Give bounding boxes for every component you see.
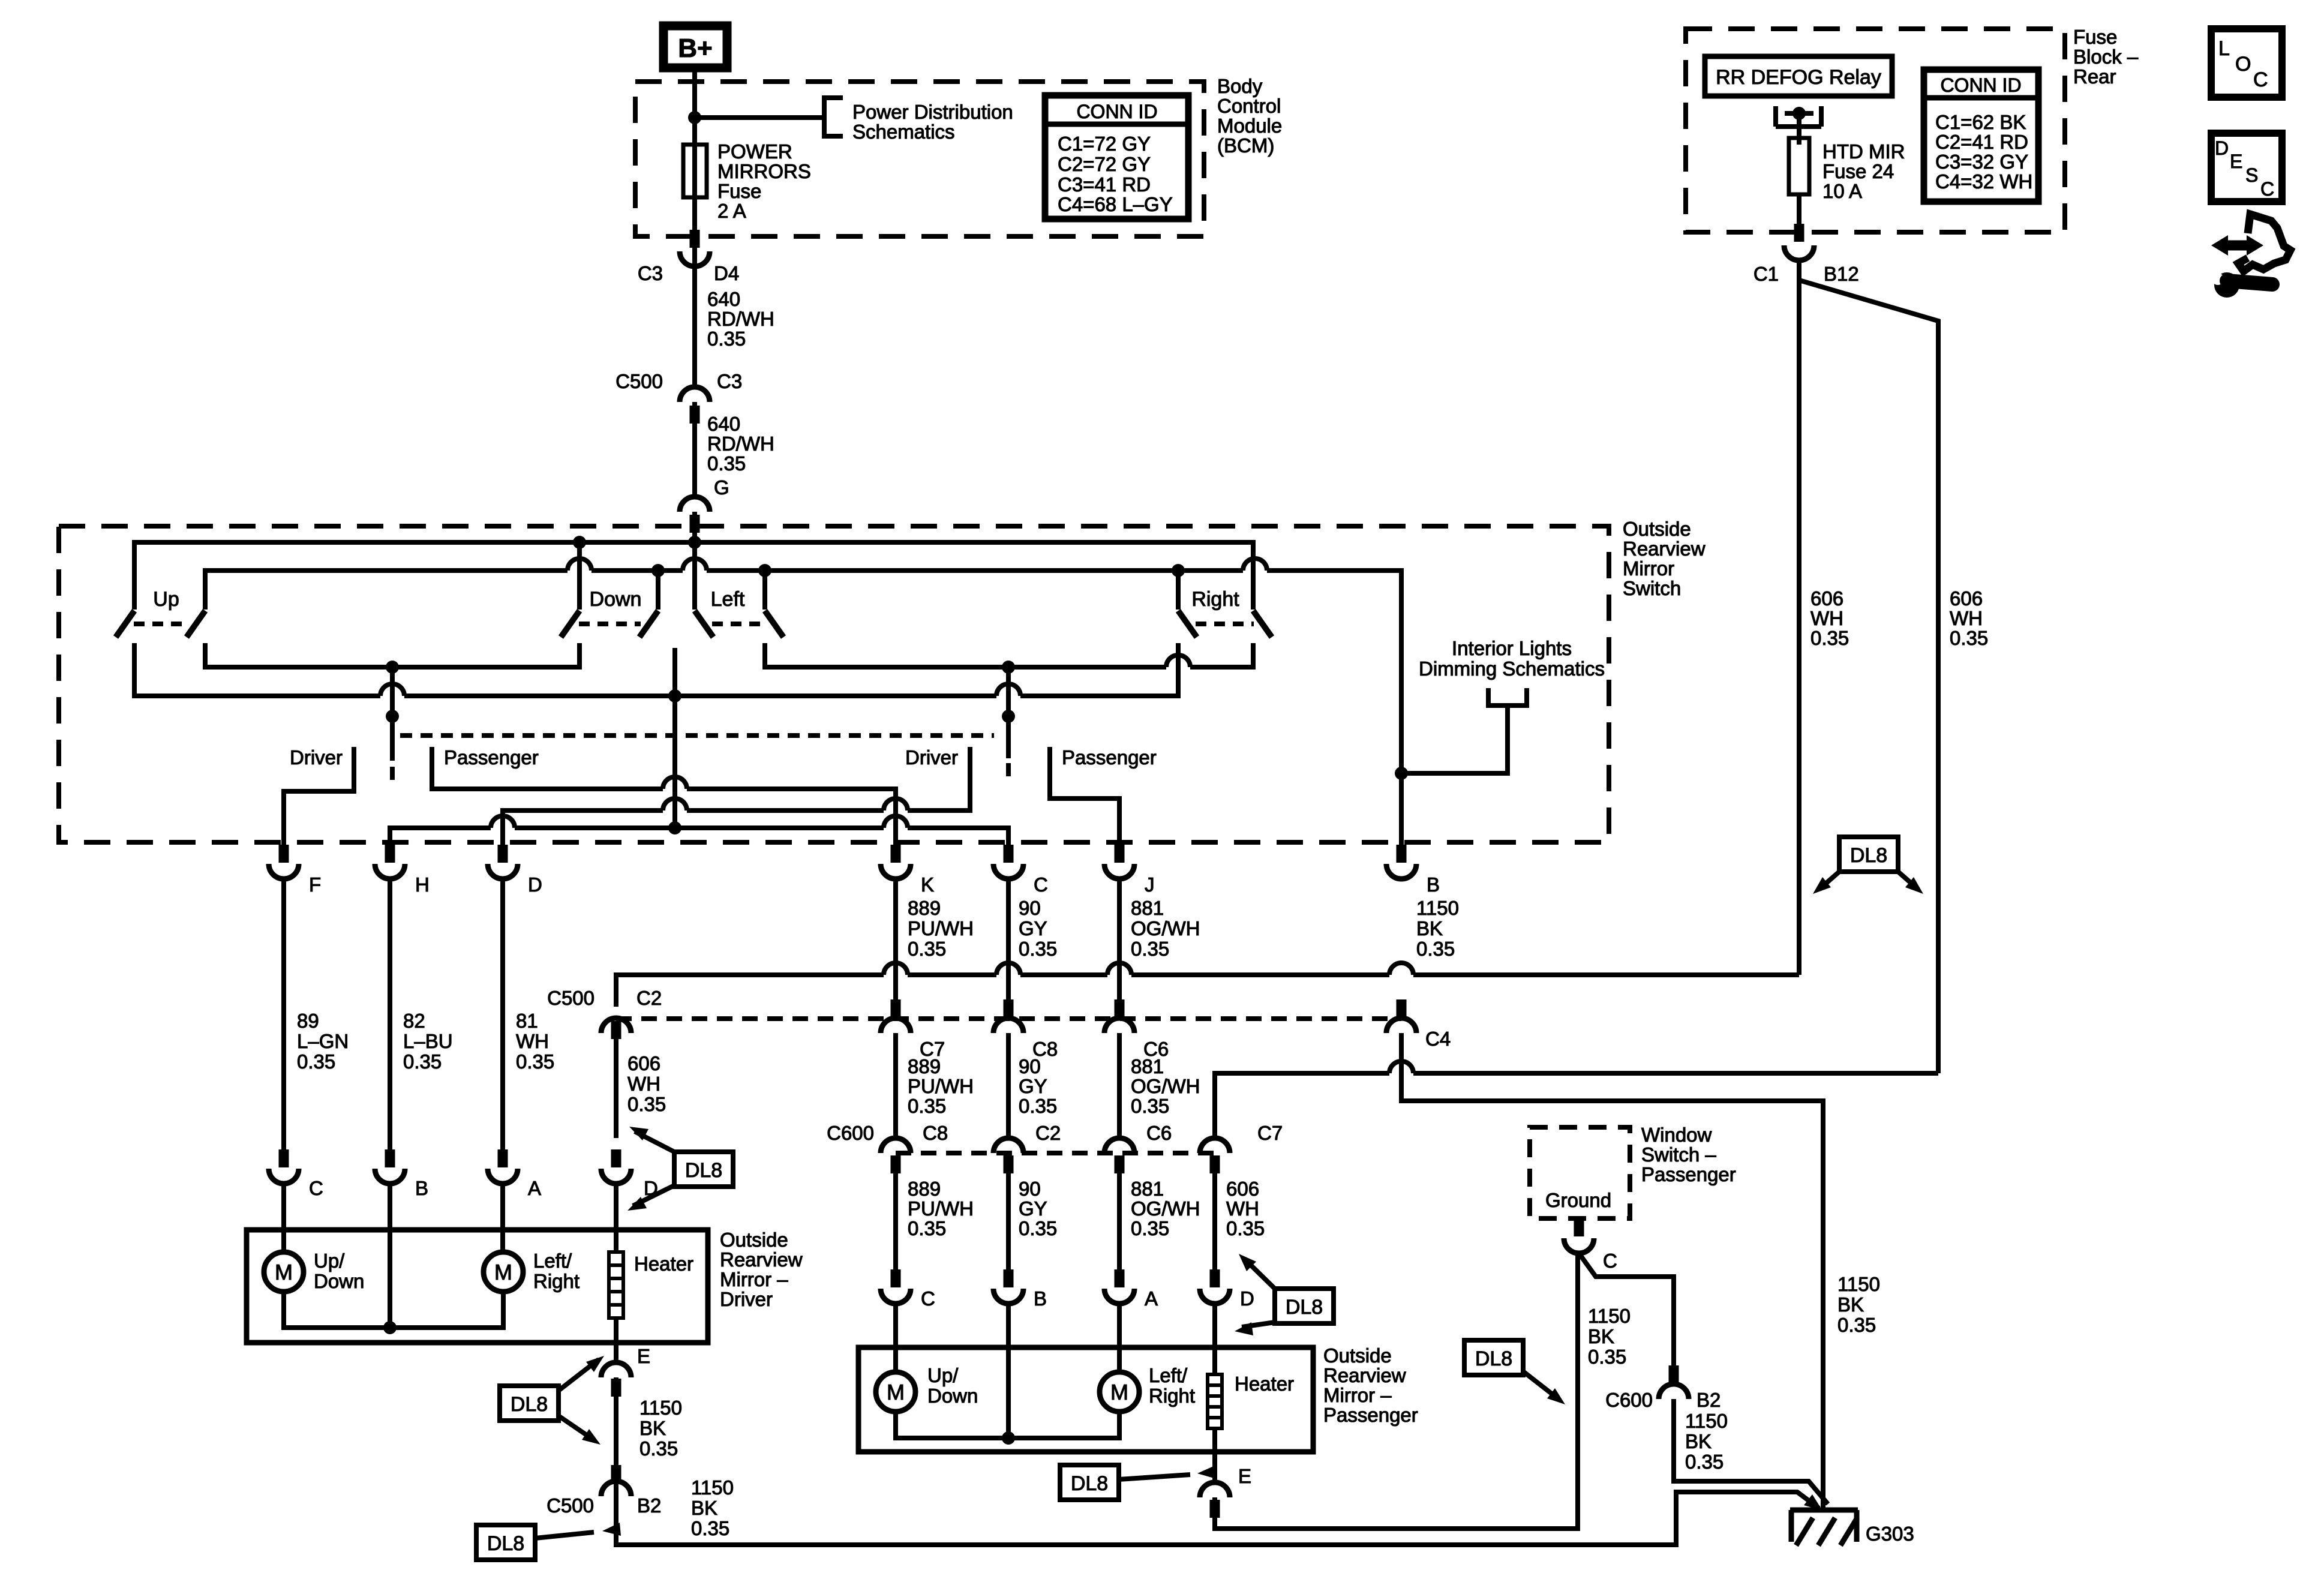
icon LOC box bbox=[2211, 29, 2282, 97]
svg-text:1150: 1150 bbox=[1685, 1410, 1728, 1432]
svg-text:1150: 1150 bbox=[1837, 1273, 1880, 1295]
svg-text:K: K bbox=[921, 873, 934, 896]
wire to passenger mirror connector x=1493 bbox=[893, 1155, 898, 1287]
bus A supply rail bbox=[134, 542, 1253, 610]
svg-text:0.35: 0.35 bbox=[908, 1217, 946, 1239]
svg-text:881: 881 bbox=[1131, 1055, 1164, 1077]
wire 606 WH below C500 bbox=[614, 1033, 618, 1138]
svg-text:O: O bbox=[2235, 53, 2251, 76]
svg-text:0.35: 0.35 bbox=[1019, 1095, 1057, 1117]
arrowhead upper bbox=[1239, 1254, 1256, 1271]
bus B return rail to pin B bbox=[205, 571, 1401, 861]
svg-text:Driver: Driver bbox=[720, 1288, 773, 1310]
node supply joins bus A bbox=[688, 536, 701, 549]
svg-text:DL8: DL8 bbox=[685, 1159, 722, 1182]
bracket relay pin socket bbox=[1776, 106, 1821, 127]
node line4 tap down bbox=[668, 689, 681, 703]
svg-text:B2: B2 bbox=[637, 1494, 661, 1517]
node bus B to Down switch bbox=[651, 564, 665, 577]
svg-text:10 A: 10 A bbox=[1822, 180, 1862, 202]
svg-text:0.35: 0.35 bbox=[1588, 1346, 1626, 1368]
svg-text:Block –: Block – bbox=[2073, 46, 2139, 68]
connector C600 cavity B2 bbox=[1659, 1384, 1689, 1399]
svg-text:Fuse: Fuse bbox=[717, 180, 761, 202]
connector C600 cavity bbox=[993, 1138, 1023, 1153]
svg-text:Left/: Left/ bbox=[1149, 1364, 1188, 1386]
svg-text:C3: C3 bbox=[717, 370, 742, 392]
svg-text:Control: Control bbox=[1217, 95, 1281, 117]
svg-text:0.35: 0.35 bbox=[1810, 627, 1849, 649]
svg-text:B+: B+ bbox=[678, 34, 712, 63]
node B wire to interior lights dimming bbox=[1395, 767, 1408, 780]
motor M up/down (passenger) bbox=[876, 1372, 915, 1412]
switch Up left blade bbox=[116, 611, 134, 637]
node junction to power distribution bbox=[688, 111, 701, 124]
svg-text:0.35: 0.35 bbox=[639, 1437, 678, 1460]
connector pin C male tick bbox=[1004, 845, 1014, 863]
svg-text:D4: D4 bbox=[714, 262, 739, 284]
svg-text:M: M bbox=[1110, 1380, 1128, 1404]
connector pin C3 male tick bbox=[690, 230, 700, 248]
svg-text:Down: Down bbox=[314, 1270, 364, 1292]
svg-text:C1=72 GY: C1=72 GY bbox=[1058, 133, 1151, 155]
svg-text:C3=32 GY: C3=32 GY bbox=[1935, 151, 2028, 173]
wire to C500 x=1866 bbox=[1117, 879, 1122, 1017]
svg-text:HTD MIR: HTD MIR bbox=[1822, 140, 1905, 163]
svg-text:Rearview: Rearview bbox=[1323, 1364, 1406, 1386]
wire Down switch left contact bbox=[577, 542, 582, 610]
connector C600 cavity bbox=[881, 1138, 911, 1153]
wire to driver mirror connector x=650 bbox=[388, 879, 392, 1151]
switch Down coupling dash bbox=[579, 622, 641, 626]
svg-text:Heater: Heater bbox=[1235, 1373, 1294, 1395]
connector C1/B12 bbox=[1784, 245, 1814, 260]
C500 C3 male tick bbox=[690, 406, 700, 424]
svg-text:Mirror –: Mirror – bbox=[1323, 1384, 1392, 1406]
svg-text:C: C bbox=[921, 1287, 935, 1310]
connector C500 cavity B2 (ground) bbox=[601, 1481, 631, 1496]
hop line4 over left pole bbox=[380, 684, 404, 696]
connector pin F male tick bbox=[279, 845, 289, 863]
component Outside Rearview Mirror Driver box bbox=[247, 1230, 708, 1343]
arrowhead to 606 wire lower bbox=[627, 1197, 647, 1211]
Fuse Block Rear dashed box bbox=[1686, 29, 2065, 232]
svg-text:640: 640 bbox=[707, 288, 740, 310]
wire line3b Left-right to Right-right legs bbox=[765, 643, 1253, 667]
connector C3/D4 bbox=[680, 251, 710, 266]
DL8 splice callout (passenger E) bbox=[1060, 1465, 1119, 1500]
connector pin F bbox=[269, 864, 299, 879]
svg-text:C7: C7 bbox=[1257, 1122, 1283, 1144]
svg-text:C: C bbox=[2253, 68, 2268, 91]
svg-text:B12: B12 bbox=[1824, 263, 1859, 285]
wire 1150 BK passenger ground to window switch bbox=[1215, 1254, 1578, 1529]
hop L3 over D wire bbox=[491, 816, 515, 828]
wire C500 to C600 x=1866 bbox=[1117, 1033, 1122, 1138]
svg-text:Module: Module bbox=[1217, 115, 1282, 137]
connector window switch pin C bbox=[1564, 1238, 1594, 1253]
node right selector pivot bbox=[1002, 710, 1015, 723]
svg-text:WH: WH bbox=[516, 1030, 549, 1052]
svg-text:Outside: Outside bbox=[1623, 518, 1691, 540]
svg-text:C3: C3 bbox=[638, 262, 663, 284]
svg-text:0.35: 0.35 bbox=[908, 938, 946, 960]
arrow line right bbox=[535, 1532, 594, 1538]
svg-text:WH: WH bbox=[1950, 607, 1983, 629]
svg-text:2 A: 2 A bbox=[717, 200, 746, 222]
arrowhead lower bbox=[1235, 1322, 1253, 1335]
svg-text:L–GN: L–GN bbox=[297, 1030, 349, 1052]
svg-text:Up/: Up/ bbox=[927, 1364, 959, 1386]
svg-text:1150: 1150 bbox=[1588, 1305, 1631, 1327]
arrow line down bbox=[1242, 1322, 1275, 1327]
wire pin B to common (pass) bbox=[1006, 1304, 1011, 1438]
connector pin J male tick bbox=[1115, 845, 1125, 863]
svg-text:606: 606 bbox=[1810, 587, 1843, 610]
wire Down switch right contact bbox=[656, 571, 660, 610]
svg-text:0.35: 0.35 bbox=[1837, 1314, 1876, 1336]
svg-text:Up/: Up/ bbox=[314, 1250, 345, 1272]
wire relay pin to fuse 24 bbox=[1797, 113, 1801, 145]
node L3 joins tap wire bbox=[668, 821, 681, 834]
connector C500 cavity C2 bbox=[601, 1018, 631, 1033]
svg-text:Down: Down bbox=[590, 588, 642, 611]
wire Passenger contact (left) line L1 to pin K bbox=[432, 747, 896, 861]
svg-text:889: 889 bbox=[908, 1055, 941, 1077]
svg-text:0.35: 0.35 bbox=[1131, 1217, 1169, 1239]
svg-text:Right: Right bbox=[533, 1270, 580, 1292]
svg-text:B2: B2 bbox=[1697, 1389, 1721, 1411]
switch Down left blade bbox=[561, 611, 580, 637]
arrow line bbox=[1523, 1371, 1559, 1399]
svg-text:RD/WH: RD/WH bbox=[707, 433, 774, 455]
arrow line up bbox=[559, 1359, 599, 1391]
C600 inline connector dashed line bbox=[896, 1151, 1215, 1155]
arrowhead left bbox=[1813, 877, 1831, 894]
svg-text:C2: C2 bbox=[636, 987, 662, 1009]
selector mechanical dashed link bbox=[400, 733, 994, 738]
svg-text:Passenger: Passenger bbox=[1323, 1404, 1418, 1426]
DL8 splice callout (C500 B2) bbox=[476, 1525, 535, 1560]
svg-text:Schematics: Schematics bbox=[852, 121, 955, 143]
connector pin G of mirror switch bbox=[680, 497, 710, 512]
Body Control Module dashed box bbox=[635, 82, 1204, 236]
svg-text:WH: WH bbox=[627, 1073, 660, 1095]
svg-text:D: D bbox=[1240, 1287, 1254, 1310]
wire to interior lights dimming schematics bbox=[1401, 706, 1508, 773]
svg-text:Body: Body bbox=[1217, 75, 1263, 97]
svg-text:Dimming Schematics: Dimming Schematics bbox=[1419, 658, 1605, 680]
connector driver mirror pin D bbox=[601, 1169, 631, 1184]
switch Right right blade bbox=[1253, 611, 1272, 637]
connector C500 cavity bbox=[881, 1018, 911, 1033]
arrow line up bbox=[1244, 1259, 1275, 1289]
svg-text:0.35: 0.35 bbox=[691, 1517, 729, 1539]
svg-text:C2=41 RD: C2=41 RD bbox=[1935, 131, 2028, 153]
arrowhead to 606 wire upper bbox=[629, 1127, 648, 1140]
arrow line to left 606 wire bbox=[1820, 872, 1839, 888]
svg-text:G303: G303 bbox=[1866, 1523, 1914, 1545]
svg-text:DL8: DL8 bbox=[1286, 1296, 1323, 1319]
hop bus B over bus A right drop bbox=[1243, 559, 1267, 571]
svg-text:90: 90 bbox=[1019, 1178, 1041, 1200]
wire to C500 x=1681 bbox=[1006, 879, 1011, 1017]
connector passenger mirror pin bbox=[993, 1289, 1023, 1304]
connector C500 cavity bbox=[1104, 1018, 1134, 1033]
svg-text:BK: BK bbox=[639, 1417, 666, 1439]
svg-text:D: D bbox=[2215, 137, 2229, 159]
svg-text:H: H bbox=[415, 873, 430, 896]
svg-text:Outside: Outside bbox=[1323, 1344, 1392, 1367]
switch Left right blade bbox=[765, 611, 783, 637]
node common bus junction (passenger) bbox=[1002, 1431, 1015, 1445]
hop over B wire bbox=[1389, 963, 1413, 975]
svg-text:0.35: 0.35 bbox=[707, 452, 746, 475]
svg-text:90: 90 bbox=[1019, 1055, 1041, 1077]
switch Right left blade bbox=[1178, 611, 1197, 637]
svg-text:C1: C1 bbox=[1753, 263, 1779, 285]
connector C600 cavity bbox=[1104, 1138, 1134, 1153]
connector passenger mirror pin D bbox=[1200, 1289, 1230, 1304]
wire to passenger mirror connector x=1866 bbox=[1117, 1155, 1122, 1287]
connector pin D male tick bbox=[498, 845, 508, 863]
switch Up coupling dash bbox=[134, 622, 188, 626]
svg-text:C: C bbox=[1603, 1250, 1617, 1272]
hop L3 over K wire bbox=[884, 816, 908, 828]
svg-text:0.35: 0.35 bbox=[908, 1095, 946, 1117]
svg-text:0.35: 0.35 bbox=[1226, 1217, 1265, 1239]
wire C500 to C600 x=1681 bbox=[1006, 1033, 1011, 1138]
svg-text:90: 90 bbox=[1019, 897, 1041, 919]
svg-text:PU/WH: PU/WH bbox=[908, 1197, 974, 1220]
hop line3b over Right left leg bbox=[1166, 655, 1190, 667]
motor M left/right (driver) bbox=[484, 1252, 523, 1292]
svg-text:606: 606 bbox=[1950, 587, 1983, 610]
svg-text:CONN ID: CONN ID bbox=[1940, 74, 2021, 96]
window switch ground pin tick bbox=[1574, 1218, 1584, 1236]
svg-text:BK: BK bbox=[1837, 1293, 1864, 1316]
svg-text:0.35: 0.35 bbox=[627, 1093, 666, 1115]
switch Left left blade bbox=[695, 611, 713, 637]
svg-text:Passenger: Passenger bbox=[444, 746, 539, 769]
connector pin C bbox=[993, 864, 1023, 879]
svg-text:82: 82 bbox=[403, 1010, 425, 1032]
wire pin C to up/down motor bbox=[281, 1184, 286, 1252]
ground G303 symbol bbox=[1790, 1510, 1858, 1542]
wire to passenger mirror connector x=1681 bbox=[1006, 1155, 1011, 1287]
node bus A to Down switch bbox=[573, 536, 586, 549]
wire 606 WH to C500 C2 bbox=[616, 975, 1799, 1007]
svg-text:Ground: Ground bbox=[1545, 1189, 1611, 1211]
svg-text:C500: C500 bbox=[547, 987, 594, 1009]
svg-text:Fuse: Fuse bbox=[2073, 26, 2117, 48]
svg-text:DL8: DL8 bbox=[1071, 1472, 1108, 1495]
icon DESC box bbox=[2211, 133, 2282, 202]
wire line4 Up-left to Right-left legs bbox=[134, 643, 1178, 696]
svg-text:Right: Right bbox=[1149, 1385, 1195, 1407]
wire 606 WH to heater top (pass) bbox=[1212, 1304, 1217, 1374]
svg-text:GY: GY bbox=[1019, 1075, 1047, 1097]
DL8 splice callout (driver heater) bbox=[674, 1152, 733, 1187]
wire to power distribution schematics bbox=[695, 115, 824, 120]
svg-text:Left: Left bbox=[711, 588, 745, 611]
connector driver mirror pin bbox=[269, 1169, 299, 1184]
node common bus junction (driver) bbox=[383, 1321, 397, 1334]
svg-text:E: E bbox=[2230, 151, 2242, 172]
svg-text:C4: C4 bbox=[1425, 1028, 1451, 1050]
connector pin H bbox=[375, 864, 405, 879]
svg-text:BK: BK bbox=[1685, 1430, 1712, 1452]
switch Right coupling dash bbox=[1196, 622, 1254, 626]
table CONN ID (fuse block) bbox=[1924, 70, 2038, 202]
wire relay pin crossbar bbox=[1785, 111, 1813, 116]
wire heater to pin E bbox=[614, 1318, 618, 1364]
svg-text:0.35: 0.35 bbox=[403, 1050, 442, 1073]
svg-text:Mirror –: Mirror – bbox=[720, 1268, 788, 1290]
svg-text:Passenger: Passenger bbox=[1062, 746, 1157, 769]
wire pin A to left/right motor (pass) bbox=[1117, 1304, 1122, 1372]
svg-text:C600: C600 bbox=[827, 1122, 874, 1144]
svg-text:Fuse 24: Fuse 24 bbox=[1822, 160, 1894, 182]
wire Left switch right contact bbox=[762, 571, 767, 610]
wire 1150 BK to G303 bbox=[1674, 1399, 1828, 1504]
svg-text:Rearview: Rearview bbox=[720, 1248, 803, 1271]
wire line3 Up-right to Down-left legs bbox=[205, 643, 580, 667]
wire left selector pole bbox=[390, 667, 395, 761]
svg-text:Right: Right bbox=[1191, 588, 1239, 611]
svg-text:CONN ID: CONN ID bbox=[1076, 101, 1157, 122]
wire 640 RD/WH lower segment bbox=[692, 402, 697, 497]
svg-text:Driver: Driver bbox=[905, 746, 958, 769]
svg-text:C2=72 GY: C2=72 GY bbox=[1058, 153, 1151, 175]
wire Left-switch lower leg tap to line L3 bbox=[672, 648, 677, 828]
connector pin B bbox=[1386, 864, 1416, 879]
svg-text:Interior Lights: Interior Lights bbox=[1452, 637, 1572, 659]
svg-text:POWER: POWER bbox=[717, 140, 792, 163]
connector passenger mirror pin bbox=[1104, 1289, 1134, 1304]
wire pin B to common bbox=[388, 1184, 392, 1328]
wire 606 WH to C600 C7 bbox=[1215, 1073, 1938, 1138]
svg-text:C4=32 WH: C4=32 WH bbox=[1935, 170, 2032, 193]
node left selector pivot bbox=[386, 710, 399, 723]
svg-text:DL8: DL8 bbox=[511, 1393, 548, 1416]
wire 606 WH left drop bbox=[1797, 260, 1801, 975]
wire 606 WH to heater top bbox=[614, 1184, 618, 1252]
svg-text:606: 606 bbox=[1226, 1178, 1259, 1200]
connector driver mirror pin bbox=[375, 1169, 405, 1184]
svg-text:81: 81 bbox=[516, 1010, 538, 1032]
svg-text:0.35: 0.35 bbox=[516, 1050, 554, 1073]
connector pin J bbox=[1104, 864, 1134, 879]
svg-text:E: E bbox=[637, 1345, 650, 1367]
bracket interior lights dimming reference bbox=[1488, 688, 1527, 706]
arrow line up bbox=[635, 1131, 674, 1152]
svg-text:C: C bbox=[2260, 178, 2274, 200]
wire supply into switch / Left switch left contact bbox=[692, 512, 697, 610]
svg-text:Passenger: Passenger bbox=[1641, 1163, 1736, 1185]
hop line4 over right pole bbox=[996, 684, 1020, 696]
svg-text:Driver: Driver bbox=[290, 746, 343, 769]
DL8 splice callout (driver ground) bbox=[500, 1386, 559, 1421]
svg-text:Outside: Outside bbox=[720, 1229, 788, 1251]
svg-text:0.35: 0.35 bbox=[297, 1050, 335, 1073]
connector C600 cavity C7 bbox=[1200, 1138, 1230, 1153]
svg-text:M: M bbox=[494, 1260, 512, 1284]
svg-text:606: 606 bbox=[627, 1052, 660, 1074]
svg-text:RR DEFOG Relay: RR DEFOG Relay bbox=[1716, 66, 1881, 89]
hop bus B over Down contact bbox=[568, 559, 591, 571]
wire 1150 BK from pin B to G303 bbox=[1401, 1033, 1823, 1511]
node bus B to Left switch bbox=[758, 564, 771, 577]
component Window Switch Passenger dashed box bbox=[1530, 1127, 1630, 1218]
svg-text:0.35: 0.35 bbox=[1950, 627, 1988, 649]
DL8 splice callout (window sw ground) bbox=[1464, 1340, 1523, 1375]
svg-text:1150: 1150 bbox=[639, 1397, 682, 1419]
hop over 1150 BK wire bbox=[1389, 1061, 1413, 1073]
motor M left/right (passenger) bbox=[1100, 1372, 1139, 1412]
svg-text:OG/WH: OG/WH bbox=[1131, 1075, 1200, 1097]
svg-text:DL8: DL8 bbox=[1475, 1347, 1512, 1370]
wire pin C to up/down motor (pass) bbox=[893, 1304, 898, 1372]
wire motor common bus (passenger) bbox=[896, 1412, 1119, 1438]
svg-text:Power Distribution: Power Distribution bbox=[852, 101, 1013, 123]
DL8 splice callout (606 wires) bbox=[1839, 837, 1898, 872]
svg-text:1150: 1150 bbox=[1416, 897, 1459, 919]
svg-text:C4=68 L–GY: C4=68 L–GY bbox=[1058, 193, 1173, 215]
svg-text:C600: C600 bbox=[1605, 1389, 1653, 1411]
svg-text:C: C bbox=[1034, 873, 1048, 896]
svg-text:C3=41 RD: C3=41 RD bbox=[1058, 173, 1151, 196]
svg-text:0.35: 0.35 bbox=[1131, 938, 1169, 960]
svg-text:Up: Up bbox=[153, 588, 179, 611]
wire 1150 BK driver ground path bbox=[616, 1377, 1819, 1545]
C500 inline connector dashed line bbox=[616, 1016, 1401, 1021]
connector driver pin E bbox=[601, 1362, 631, 1377]
wire line L3 pins H to C bbox=[390, 828, 1008, 861]
motor M up/down (driver) bbox=[264, 1252, 304, 1292]
hop L2 over tap wire bbox=[663, 798, 687, 810]
svg-text:WH: WH bbox=[1226, 1197, 1259, 1220]
svg-text:GY: GY bbox=[1019, 1197, 1047, 1220]
svg-text:WH: WH bbox=[1810, 607, 1843, 629]
arrow line to right 606 wire bbox=[1898, 872, 1917, 888]
connector passenger mirror pin bbox=[881, 1289, 911, 1304]
svg-text:DL8: DL8 bbox=[487, 1532, 524, 1555]
svg-text:0.35: 0.35 bbox=[1685, 1451, 1724, 1473]
svg-text:G: G bbox=[714, 476, 729, 499]
connector pin B male tick bbox=[1397, 845, 1407, 863]
wire motor common bus (driver) bbox=[284, 1292, 503, 1328]
connector C500/C3 bbox=[680, 387, 710, 402]
svg-text:Window: Window bbox=[1641, 1124, 1712, 1146]
wire Passenger contact (right) to pin J bbox=[1050, 747, 1119, 861]
connector pin H male tick bbox=[385, 845, 395, 863]
arrow line bbox=[1119, 1475, 1190, 1479]
table CONN ID (BCM) bbox=[1045, 95, 1188, 219]
svg-text:BK: BK bbox=[1588, 1325, 1614, 1347]
right selector pole dash bbox=[1006, 763, 1011, 776]
connector C1 male tick bbox=[1794, 224, 1804, 242]
switch Left coupling dash bbox=[712, 622, 765, 626]
svg-text:MIRRORS: MIRRORS bbox=[717, 160, 811, 182]
svg-text:0.35: 0.35 bbox=[1019, 938, 1057, 960]
wire right selector pole bbox=[1006, 667, 1011, 758]
svg-text:DL8: DL8 bbox=[1850, 844, 1887, 867]
wire to driver mirror connector x=838 bbox=[500, 879, 505, 1151]
wire Driver contact (left) to pin F bbox=[284, 747, 354, 861]
svg-text:B: B bbox=[415, 1177, 428, 1199]
svg-text:OG/WH: OG/WH bbox=[1131, 917, 1200, 939]
